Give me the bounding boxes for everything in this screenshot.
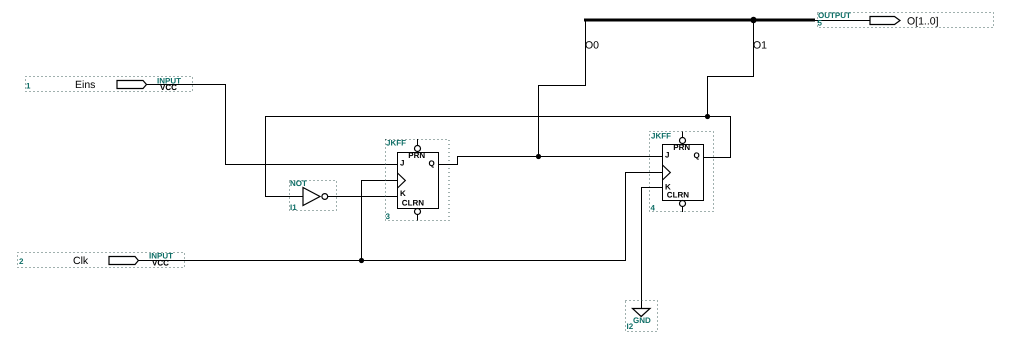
junction node O1 xyxy=(705,114,710,119)
svg-text:2: 2 xyxy=(19,257,24,266)
svg-text:5: 5 xyxy=(818,19,823,28)
svg-text:J: J xyxy=(400,158,404,167)
junction Clk branch xyxy=(359,258,364,263)
wire bus to output pin xyxy=(815,20,870,22)
svg-text:O[1..0]: O[1..0] xyxy=(907,16,939,28)
wire Clk to clock of second JKFF xyxy=(138,173,662,261)
svg-text:JKFF: JKFF xyxy=(651,132,671,141)
wire node O0 branch to bus xyxy=(539,20,586,157)
svg-text:Q: Q xyxy=(694,151,700,160)
svg-text:VCC: VCC xyxy=(152,259,169,268)
output pin O[1..0] (pin 5) xyxy=(818,11,994,28)
svg-text:NOT: NOT xyxy=(290,179,307,188)
input pin Eins (pin 1) xyxy=(26,77,193,93)
svg-text:Q: Q xyxy=(429,159,435,168)
svg-text:J: J xyxy=(665,150,669,159)
svg-text:I2: I2 xyxy=(627,322,634,331)
svg-text:1: 1 xyxy=(26,82,31,91)
svg-text:K: K xyxy=(400,189,406,198)
jk flip-flop 3 (JKFF) xyxy=(386,139,450,222)
wire Eins to J input of first JKFF xyxy=(147,85,398,165)
wire node O1 branch to bus xyxy=(708,20,754,117)
wire NOT output to K input of first JKFF xyxy=(328,196,397,198)
svg-text:PRN: PRN xyxy=(408,151,425,160)
svg-text:O1: O1 xyxy=(753,40,767,52)
svg-text:CLRN: CLRN xyxy=(402,199,424,208)
wire K2 to GND xyxy=(642,188,663,309)
svg-text:OUTPUT: OUTPUT xyxy=(818,11,851,20)
svg-text:Eins: Eins xyxy=(75,79,95,91)
not gate I1 xyxy=(290,179,337,212)
svg-text:PRN: PRN xyxy=(673,143,690,152)
junction on bus at O1 xyxy=(750,17,756,23)
svg-text:O0: O0 xyxy=(585,40,599,52)
gnd symbol I2 xyxy=(626,301,658,332)
wire Clk branch to clock of first JKFF xyxy=(362,181,398,261)
junction node O0 xyxy=(536,154,541,159)
jk flip-flop 4 (JKFF) xyxy=(650,132,714,213)
wire Q2 feedback to NOT input xyxy=(266,117,731,197)
svg-text:JKFF: JKFF xyxy=(386,139,406,148)
svg-text:Clk: Clk xyxy=(73,255,89,267)
bus O[1..0] xyxy=(584,19,815,22)
svg-text:4: 4 xyxy=(651,204,656,213)
svg-text:CLRN: CLRN xyxy=(667,191,689,200)
input pin Clk (pin 2) xyxy=(18,252,185,268)
svg-text:3: 3 xyxy=(386,212,391,221)
wire Q1 to J input of second JKFF xyxy=(439,157,663,165)
svg-text:I1: I1 xyxy=(290,203,297,212)
svg-text:GND: GND xyxy=(633,316,651,325)
